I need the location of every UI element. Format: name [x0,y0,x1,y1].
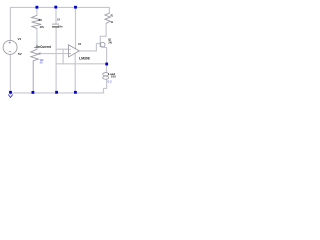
svg-text:2N: 2N [108,40,111,44]
svg-text:R1: R1 [111,13,114,17]
svg-text:0.2: 0.2 [108,80,113,84]
svg-text:C4: C4 [57,18,60,22]
svg-text:R4: R4 [39,18,42,22]
svg-text:50%: 50% [40,60,43,64]
svg-text:OnCurrent: OnCurrent [36,45,52,49]
svg-text:U1: U1 [78,42,82,46]
svg-text:5V: 5V [18,52,22,56]
svg-text:47k: 47k [40,25,45,29]
svg-text:100: 100 [111,75,116,79]
svg-text:LM308: LM308 [79,57,90,61]
svg-text:1k: 1k [111,20,114,24]
svg-text:100n: 100n [58,25,62,29]
svg-text:V1: V1 [18,37,22,41]
